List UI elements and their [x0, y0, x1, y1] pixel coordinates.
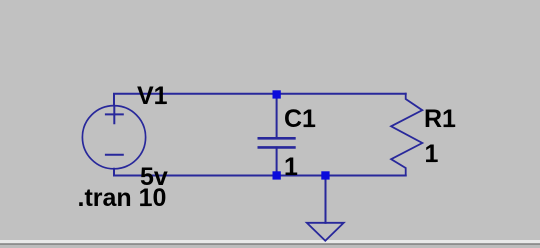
svg-text:1: 1: [284, 153, 298, 181]
junction node at C1 top: [273, 90, 281, 98]
wire: top rail from V1 to R1: [114, 94, 406, 106]
junction node at C1 bottom: [273, 171, 281, 179]
resistor R1 zigzag body with leads: [391, 94, 422, 176]
junction node at ground: [321, 171, 329, 179]
capacitor C1 plates: [259, 138, 295, 147]
svg-text:.tran 10: .tran 10: [78, 184, 167, 212]
V1 minus sign: [106, 154, 123, 156]
voltage source V1 circle: [82, 106, 145, 169]
svg-text:1: 1: [425, 140, 439, 168]
ground stem wire: [325, 176, 327, 223]
V1 plus sign: [106, 106, 123, 123]
svg-text:C1: C1: [284, 105, 316, 133]
ground symbol triangle: [307, 223, 344, 241]
svg-text:R1: R1: [424, 105, 456, 133]
capacitor C1 bottom lead: [276, 147, 278, 175]
wire: bottom rail from V1 to R1: [114, 169, 406, 176]
capacitor C1 top lead: [276, 94, 278, 139]
svg-text:V1: V1: [137, 82, 168, 110]
